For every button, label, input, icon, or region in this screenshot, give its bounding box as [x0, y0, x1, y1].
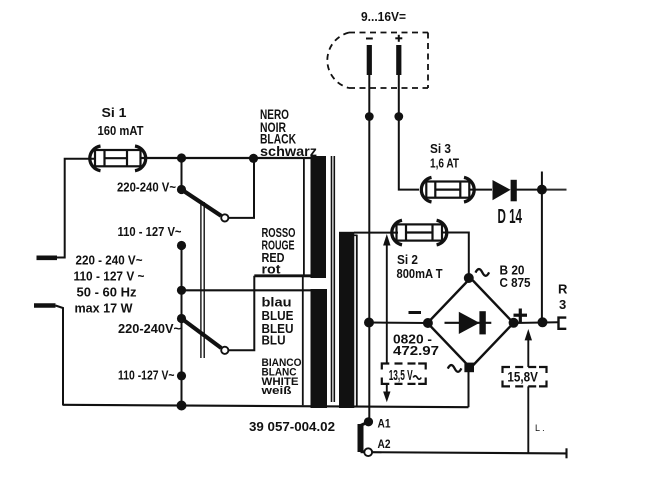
switch S2 pivot — [177, 314, 186, 323]
secondary outline edge — [356, 235, 358, 407]
svg-text:BLU: BLU — [262, 333, 286, 348]
mains terminal 1 — [37, 255, 58, 260]
terminal plus (bar) — [396, 45, 401, 75]
measurement 13,5V arrow down — [386, 384, 388, 393]
wire: Si3 to D14 — [469, 189, 492, 191]
node: bottom rail junction — [177, 401, 187, 411]
wire: 15,8V to output common — [527, 386, 529, 453]
wire: stub right (fading) — [542, 189, 567, 191]
wire: Si2 right lead to bridge top — [442, 233, 469, 279]
primary upper outline edge — [303, 157, 305, 276]
wire: DC minus down — [368, 75, 370, 422]
bridge inner diode — [445, 322, 492, 324]
wire: junction down to plus rail — [541, 190, 543, 323]
transformer T secondary winding — [339, 232, 354, 408]
node on DC plus — [394, 112, 403, 121]
node A1 — [364, 417, 373, 426]
terminal A2 (open circle) — [364, 448, 372, 456]
switch S1 pivot — [177, 185, 186, 194]
svg-text:D 14: D 14 — [498, 206, 523, 228]
svg-text:C 875: C 875 — [500, 276, 531, 290]
bridge vertex nodes — [464, 273, 474, 283]
wire: DC plus down and to fuse Si3 — [399, 75, 419, 190]
svg-text:50 - 60 Hz: 50 - 60 Hz — [77, 286, 137, 300]
svg-text:9...16V=: 9...16V= — [361, 10, 406, 24]
node A on top wire — [177, 153, 186, 162]
fuse Si1 — [90, 146, 146, 171]
terminal minus (bar) — [367, 45, 372, 75]
node B on top wire — [249, 154, 258, 163]
transformer core — [331, 156, 333, 402]
DC input connector (dashed) — [327, 33, 428, 89]
svg-text:160 mAT: 160 mAT — [98, 124, 144, 138]
svg-text:110 -127 V~: 110 -127 V~ — [118, 369, 175, 383]
node: bridge minus junction — [364, 318, 374, 328]
wire: top primary wire to transformer — [141, 157, 312, 159]
svg-text:15,8V: 15,8V — [507, 369, 538, 385]
wire: bottom wire (bianco + secondary return) — [63, 405, 469, 407]
svg-text:L .: L . — [535, 423, 545, 433]
wire: fuse left lead + upper left rail — [57, 159, 95, 258]
wire: bridge minus lead — [369, 322, 428, 325]
fuse Si3 — [421, 177, 474, 202]
svg-text:110 - 127 V~: 110 - 127 V~ — [118, 225, 182, 239]
wire: lower left rail from terminal 2 to bottom wire — [56, 306, 64, 406]
wire end tick — [565, 448, 567, 458]
svg-text:220-240V~: 220-240V~ — [118, 322, 181, 336]
svg-text:weiß: weiß — [260, 385, 292, 397]
primary lower outline edge — [302, 276, 304, 406]
wire: left selector rail x=181.5 down to bottom wire — [181, 246, 183, 406]
wire: node A down to switch S1 pivot — [181, 158, 183, 190]
measurement 15,8V arrow up — [527, 338, 529, 367]
switch S1 contact (open circle) — [221, 214, 228, 221]
measurement 13,5V box — [382, 364, 426, 384]
wire: D14 to junction + stubs — [515, 189, 542, 191]
measurement 15,8V box — [503, 367, 547, 386]
mains terminal 2 — [34, 303, 56, 308]
wave subscript — [413, 376, 421, 379]
svg-text:39 057-004.02: 39 057-004.02 — [249, 420, 335, 434]
svg-text:1,6 AT: 1,6 AT — [430, 157, 459, 171]
svg-text:3: 3 — [559, 297, 566, 312]
svg-text:472.97: 472.97 — [393, 343, 439, 358]
svg-text:A1: A1 — [378, 417, 391, 431]
node: blau junction — [177, 286, 186, 295]
resistor R3x (clipped at scan edge) — [559, 318, 567, 329]
diode D14 — [493, 180, 514, 202]
wire: stub up — [541, 172, 543, 190]
switch S2 blade — [182, 319, 222, 349]
transformer T primary lower section — [311, 289, 328, 408]
svg-text:A2: A2 — [378, 437, 391, 451]
svg-text:800mA T: 800mA T — [397, 267, 443, 281]
wire: S1 contact to node B — [229, 158, 255, 218]
svg-text:Si 1: Si 1 — [102, 106, 127, 120]
wire: blau line — [182, 289, 314, 291]
node: plus rail junction — [538, 317, 548, 327]
node on DC minus — [365, 112, 374, 121]
svg-text:220 - 240 V~: 220 - 240 V~ — [76, 254, 143, 268]
node: D14 output junction — [537, 185, 547, 195]
link A1-A2 (thick bar) — [361, 422, 369, 426]
svg-text:Si 3: Si 3 — [430, 142, 451, 156]
wire: A2 output — [372, 452, 566, 453]
wire: bridge bottom lead — [468, 368, 470, 407]
svg-text:schwarz: schwarz — [260, 144, 317, 159]
contact 110-127V (S1) — [177, 241, 186, 250]
wire: rosso tap (thick) — [254, 274, 326, 277]
switch S1 blade — [182, 190, 222, 216]
bridge terminal signs — [476, 269, 490, 276]
measurement 13,5V arrow up — [386, 243, 388, 364]
switch S2 contact (open circle) — [221, 347, 228, 354]
svg-text:rot: rot — [262, 262, 282, 277]
svg-text:max 17 W: max 17 W — [75, 302, 133, 316]
svg-text:110 - 127 V ~: 110 - 127 V ~ — [74, 270, 145, 284]
wire: secondary top lead to fuse Si2 — [354, 232, 398, 234]
svg-text:220-240 V~: 220-240 V~ — [117, 181, 176, 195]
switch coupling bar — [200, 202, 202, 358]
node: 110-127 contact lower — [177, 371, 186, 380]
wire: bridge plus lead — [514, 321, 558, 324]
fuse Si2 — [392, 220, 447, 245]
wire: S2 contact up to rosso tap — [229, 276, 255, 351]
svg-text:Si 2: Si 2 — [397, 253, 418, 267]
transformer T primary upper section — [311, 156, 327, 278]
bridge rectifier B20/C875 diamond — [428, 278, 514, 368]
svg-text:R: R — [558, 282, 568, 297]
svg-text:13,5 V: 13,5 V — [389, 368, 413, 384]
